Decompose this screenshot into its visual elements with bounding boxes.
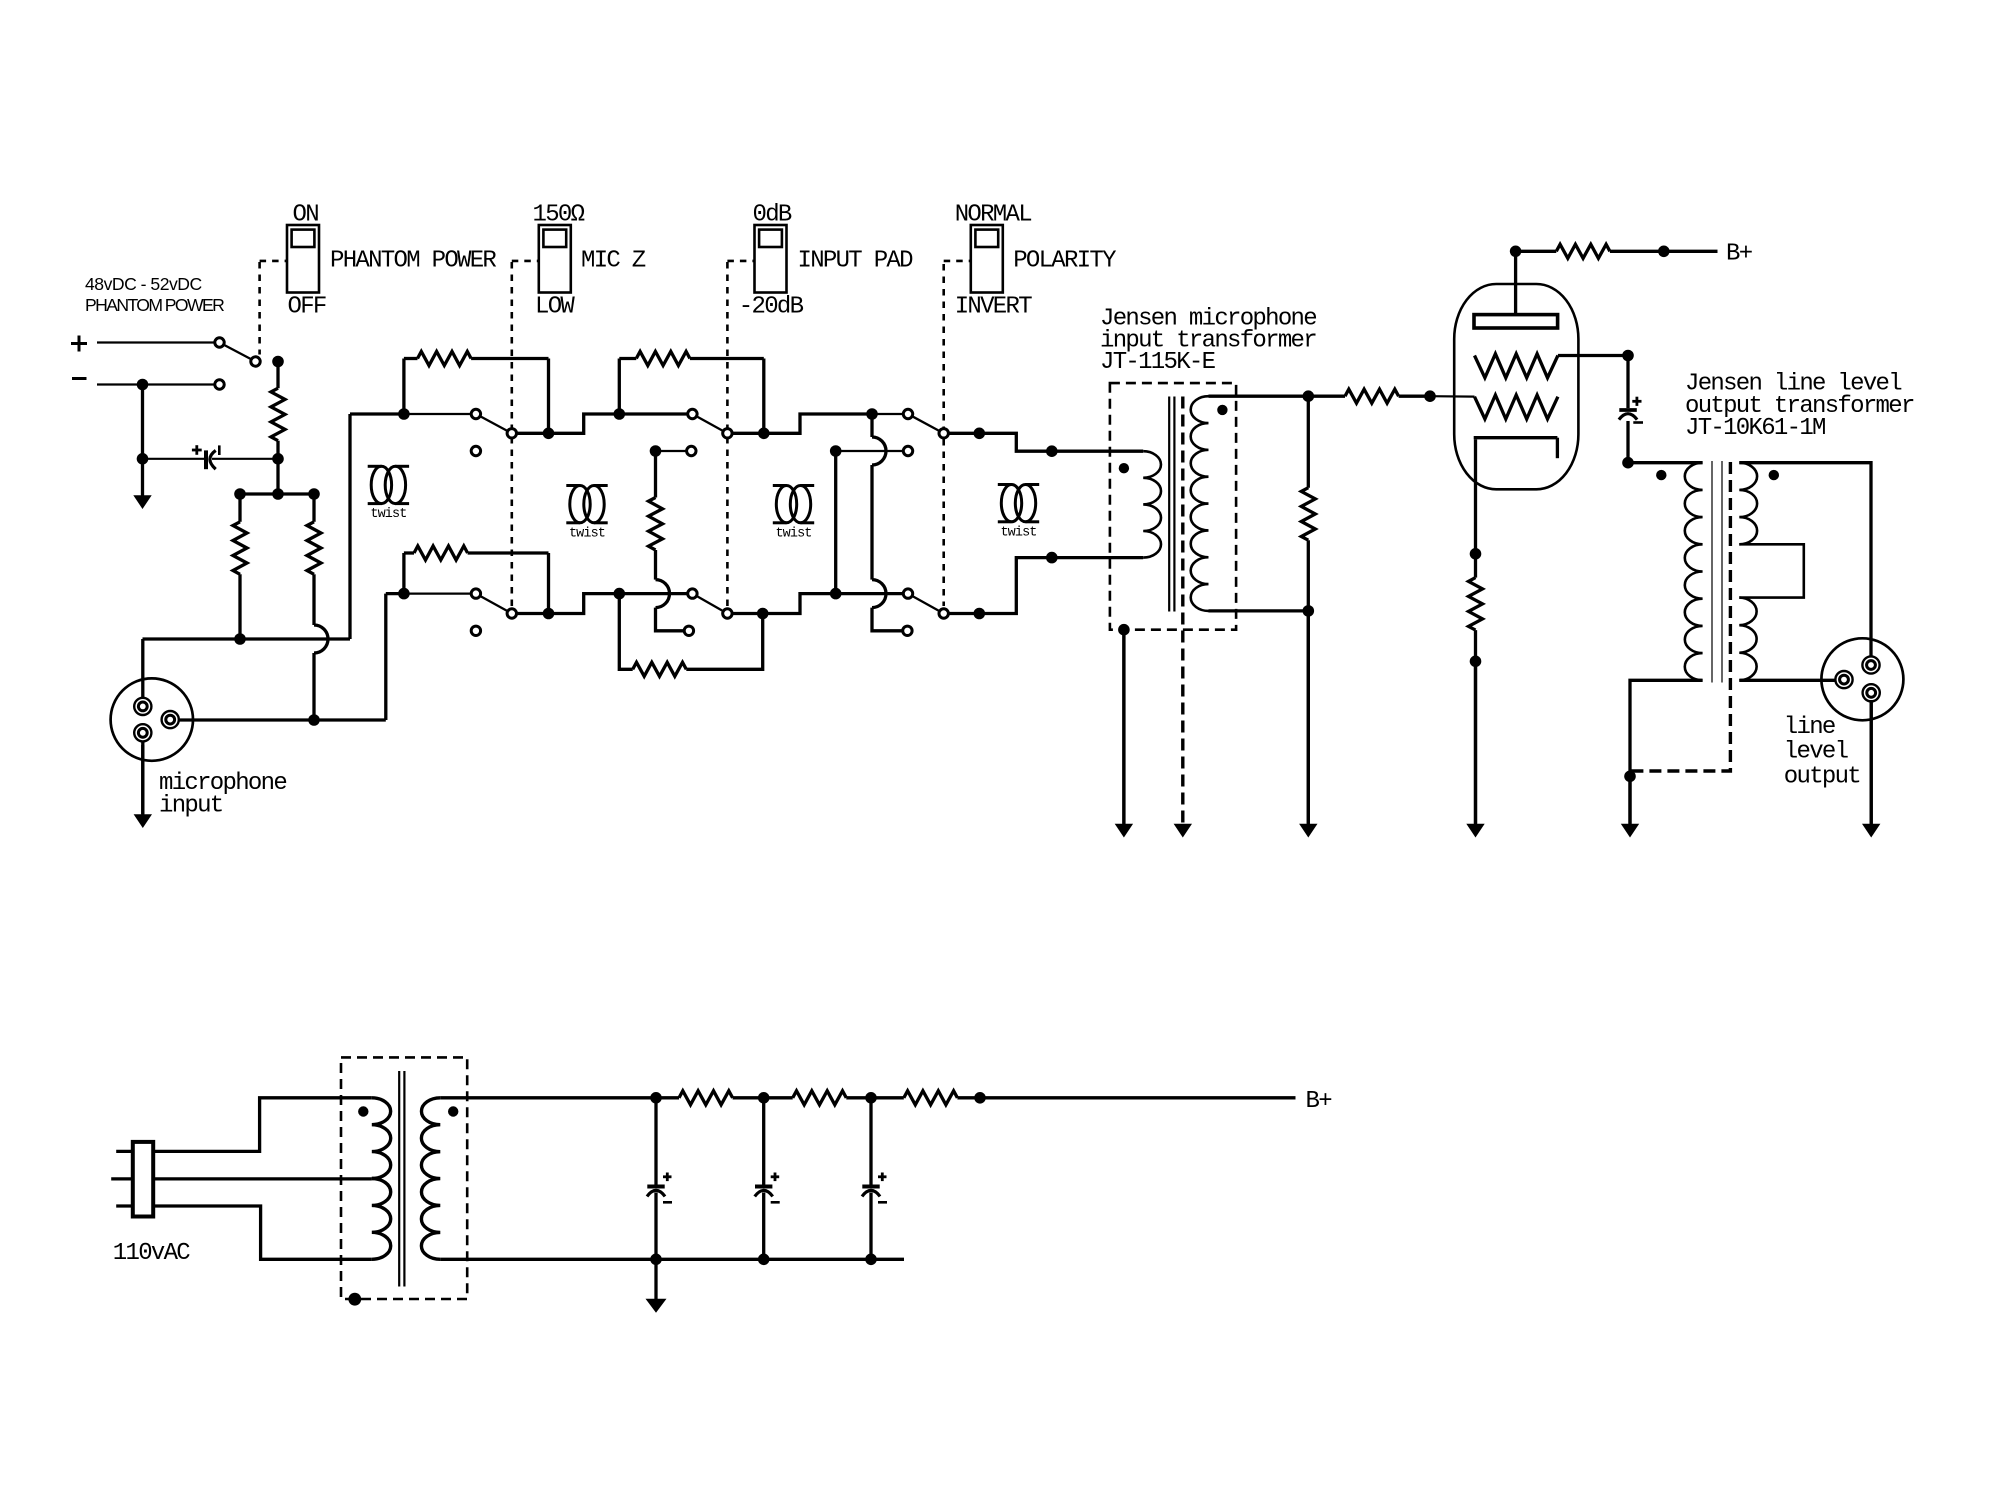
svg-text:OFF: OFF <box>288 294 326 321</box>
svg-text:twist: twist <box>569 526 605 541</box>
svg-text:twist: twist <box>370 507 406 522</box>
svg-text:150Ω: 150Ω <box>533 202 585 229</box>
svg-text:ON: ON <box>293 202 319 229</box>
svg-text:POLARITY: POLARITY <box>1013 248 1116 275</box>
svg-text:level: level <box>1784 739 1849 766</box>
svg-text:110vAC: 110vAC <box>113 1240 191 1267</box>
svg-text:JT-115K-E: JT-115K-E <box>1100 349 1216 376</box>
svg-text:INPUT PAD: INPUT PAD <box>798 248 914 275</box>
svg-text:INVERT: INVERT <box>955 294 1033 321</box>
svg-text:LOW: LOW <box>535 294 575 321</box>
svg-text:MIC Z: MIC Z <box>581 248 646 275</box>
svg-text:-20dB: -20dB <box>739 294 804 321</box>
svg-text:twist: twist <box>1000 525 1036 540</box>
svg-text:B+: B+ <box>1306 1088 1333 1115</box>
svg-text:PHANTOM POWER: PHANTOM POWER <box>330 248 496 275</box>
svg-text:JT-10K61-1M: JT-10K61-1M <box>1685 415 1825 442</box>
svg-text:output: output <box>1784 763 1860 790</box>
svg-text:NORMAL: NORMAL <box>955 202 1032 229</box>
svg-text:input: input <box>159 792 223 819</box>
svg-text:twist: twist <box>775 526 811 541</box>
svg-text:line: line <box>1784 714 1835 741</box>
svg-text:0dB: 0dB <box>753 202 792 229</box>
svg-text:B+: B+ <box>1726 241 1753 268</box>
svg-text:48vDC - 52vDC: 48vDC - 52vDC <box>85 274 202 294</box>
svg-text:PHANTOM POWER: PHANTOM POWER <box>85 295 224 315</box>
